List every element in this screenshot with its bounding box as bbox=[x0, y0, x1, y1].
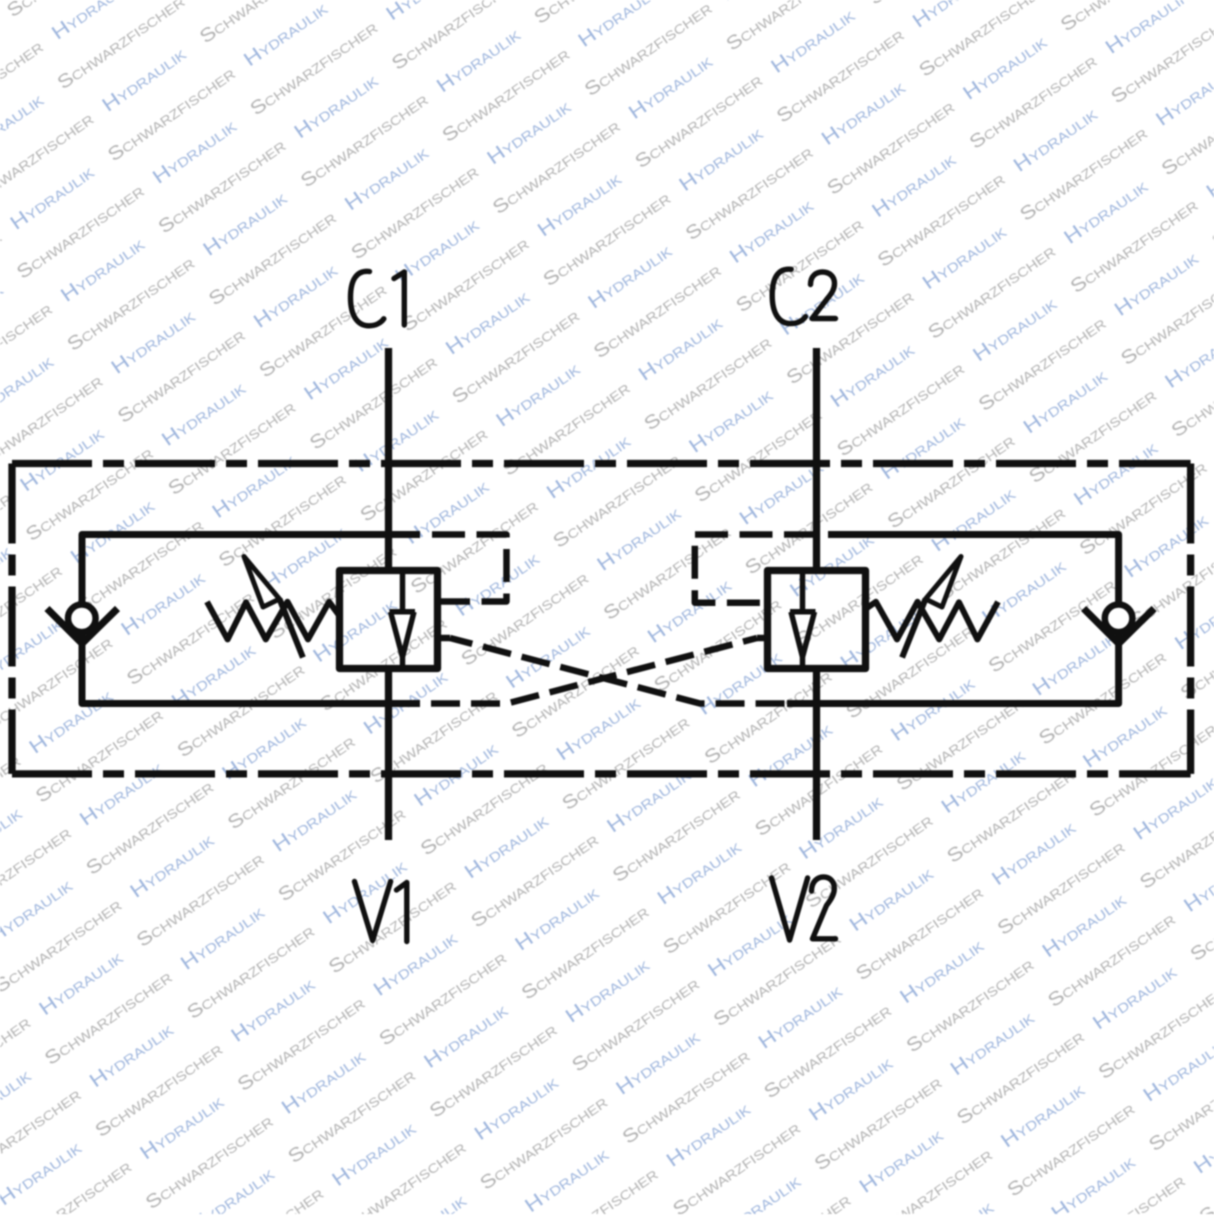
label V2 glyph 2 bbox=[812, 877, 836, 939]
assembly boundary top edge (dash-dot) bbox=[12, 460, 1191, 467]
wire: port C2 line bbox=[813, 348, 820, 571]
adjustability arrow shaft of valve V2 spring bbox=[902, 599, 925, 658]
wire: right valve branch rectangle bbox=[787, 535, 1119, 704]
pilot line: from valve V2 to C1 side (dashed, ascending) bbox=[420, 638, 757, 704]
wire: stub at valve V2 pilot port bbox=[757, 635, 768, 642]
label C1 glyph C bbox=[351, 271, 384, 325]
assembly boundary right edge (dash-dot) bbox=[1187, 464, 1194, 774]
pilot line: valve V1 internal pilot (dashed box) bbox=[432, 535, 507, 602]
label C1 glyph 1 bbox=[394, 272, 404, 325]
valve V1 body (counterbalance cartridge) bbox=[340, 571, 438, 669]
labels bbox=[351, 269, 836, 941]
spring of valve V1 bbox=[207, 602, 340, 640]
valve V2 poppet arrow bbox=[790, 612, 816, 668]
valve V2 body (counterbalance cartridge) bbox=[768, 571, 866, 669]
valve V1 poppet arrow bbox=[390, 612, 416, 668]
wire: port V2 line bbox=[813, 669, 820, 841]
label V2 glyph V bbox=[772, 878, 808, 940]
check valve seat (right) bbox=[1084, 609, 1155, 644]
pilot line: valve V2 internal pilot (dashed box) bbox=[695, 535, 817, 603]
wire: port C1 line bbox=[385, 348, 392, 571]
valve V2 internal flow line bbox=[800, 571, 806, 612]
adjustability arrow shaft of valve V1 spring bbox=[280, 599, 303, 658]
pilot line: from valve V1 to C2 side (dashed, descending) bbox=[450, 638, 787, 704]
assembly boundary bottom edge (dash-dot) bbox=[12, 770, 1191, 777]
spring of valve V2 bbox=[866, 602, 999, 640]
label V1 glyph 1 bbox=[397, 883, 407, 942]
adjustability arrowhead of valve V2 spring bbox=[926, 557, 962, 608]
adjustability arrowhead of valve V1 spring bbox=[244, 557, 280, 608]
check valve seat (left) bbox=[47, 609, 118, 644]
check valve ball (right) bbox=[1105, 605, 1133, 633]
assembly boundary left edge (dash-dot) bbox=[8, 464, 15, 774]
check valve ball (left) bbox=[68, 605, 96, 633]
label C2 glyph C bbox=[772, 269, 805, 323]
wire: stub at valve V1 pilot port bbox=[438, 635, 450, 642]
wire: port V1 line bbox=[385, 669, 392, 841]
label C2 glyph 2 bbox=[811, 272, 836, 319]
label V1 glyph V bbox=[355, 882, 391, 941]
valve V1 internal flow line bbox=[400, 571, 406, 612]
wire: left valve branch rectangle bbox=[82, 535, 420, 704]
